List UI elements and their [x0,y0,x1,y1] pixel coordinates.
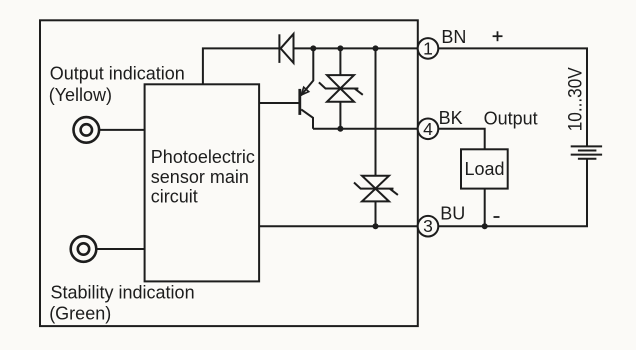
minus sign (-) [494,216,500,218]
wire: output LED to main circuit [100,129,145,131]
wire: diode to terminal 1 (BN rail inside box) [294,47,419,49]
wire: terminal 4 to load [438,129,484,150]
TVS zener Z1 upper lead [339,48,341,75]
svg-text:circuit: circuit [151,186,198,206]
terminal 1 (BN) [418,38,439,59]
transistor Q1 base bar [298,89,301,115]
node: Z2 tap on supply rail [373,45,379,51]
wire: main circuit to terminal 3 (BU) [259,225,418,227]
svg-text:sensor main: sensor main [151,167,249,187]
wire: stability LED to main circuit [97,248,145,250]
transistor Q1 (PNP output), emitter arrow [301,87,309,95]
svg-text:BK: BK [439,108,463,128]
node: Z1 tap on BK wire [337,126,343,132]
node: emitter tap on supply rail [310,45,316,51]
svg-text:3: 3 [423,216,433,236]
battery B1 (two cells) [571,146,602,158]
wire: main circuit top to supply rail [203,48,280,84]
svg-text:(Green): (Green) [49,303,111,323]
inner box U1: photoelectric sensor main circuit [145,84,260,281]
wire: terminal 1 to battery + [438,48,587,146]
TVS zener Z2 lower lead [375,201,377,226]
wire: terminal 3 to battery - [438,159,587,227]
svg-text:1: 1 [423,38,433,58]
LED indicator: output indication (yellow) [74,117,100,143]
svg-text:4: 4 [423,119,433,139]
svg-text:10...30V: 10...30V [565,67,586,131]
node: load tap on BU wire [482,223,488,229]
svg-text:Photoelectric: Photoelectric [151,147,255,167]
wire: base from main circuit [259,102,300,104]
load box [461,149,508,188]
TVS zener Z2 (bidirectional, across supply) [354,176,398,202]
TVS zener Z1 (bidirectional, supply to output) [319,75,363,102]
outer sensor enclosure box [40,20,418,326]
diode D1 (reverse polarity protection) [279,34,293,63]
svg-text:Output indication: Output indication [50,63,185,83]
svg-text:BU: BU [440,204,465,224]
svg-text:(Yellow): (Yellow) [49,85,112,105]
plus sign (+) [493,31,503,41]
svg-text:Stability indication: Stability indication [51,283,195,303]
svg-text:Output: Output [484,109,538,129]
terminal 3 (BU) [418,216,439,237]
LED indicator: stability indication (green) [71,236,97,262]
wire: collector to terminal 4 (BK) [313,128,418,130]
svg-text:Load: Load [465,159,505,179]
terminal 4 (BK) [418,119,439,140]
node: Z2 tap on BU wire [373,223,379,229]
node: Z1 tap on supply rail [337,45,343,51]
wire: supply rail down to TVS Z2 (crosses BK wire) [375,48,377,175]
transistor Q1 collector lead [301,109,313,128]
TVS zener Z1 lower lead [339,102,341,129]
wire: emitter riser from supply rail [301,48,313,95]
svg-text:BN: BN [441,27,466,47]
wire: load to bottom rail [484,189,486,227]
